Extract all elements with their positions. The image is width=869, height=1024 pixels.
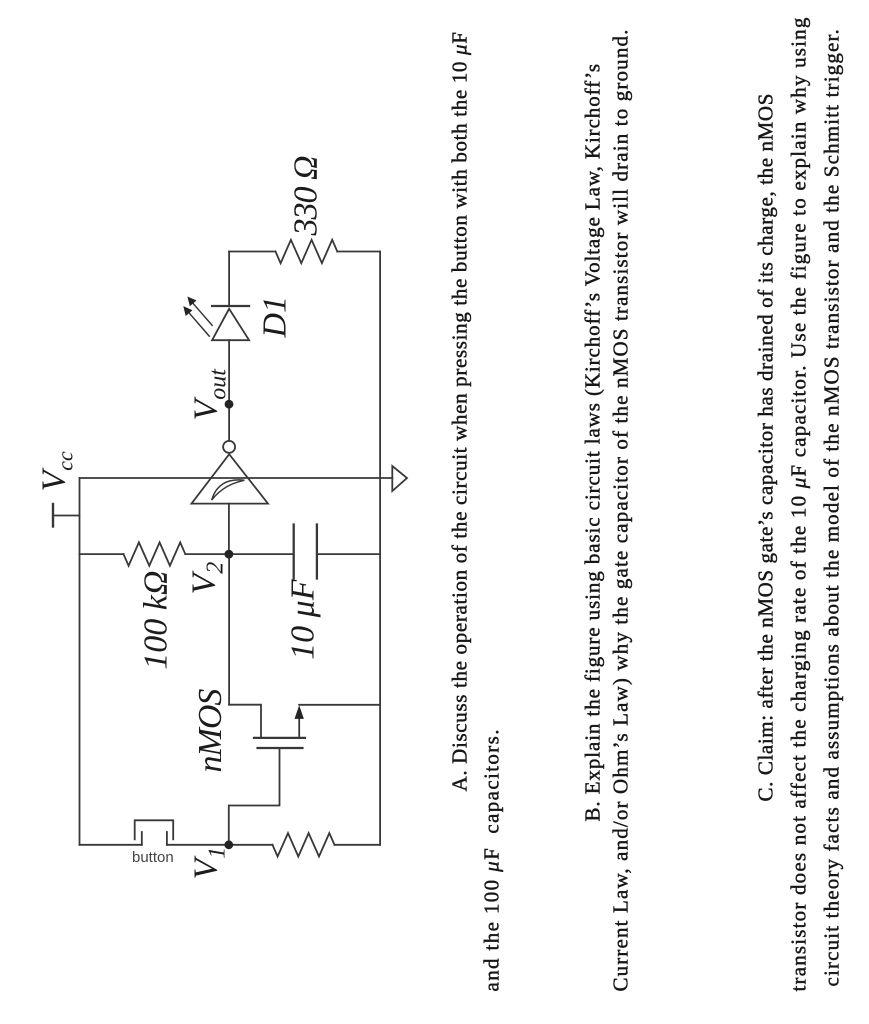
paragraph C line 1: [755, 93, 776, 802]
wire gate path: [228, 748, 279, 845]
paragraph C line 3: [821, 28, 842, 986]
svg-text:Vout: Vout: [187, 367, 231, 420]
led D1 cathode bar: [212, 304, 249, 306]
svg-text:button: button: [132, 849, 174, 866]
wire left rail upper: [79, 843, 141, 845]
svg-text:330 Ω: 330 Ω: [287, 156, 324, 237]
power Vcc stem: [53, 514, 80, 516]
schmitt output bubble: [223, 440, 235, 452]
wire V2 riser top: [79, 553, 123, 555]
paragraph B line 2: [610, 28, 631, 991]
led D1 arrow 1: [185, 308, 209, 336]
wire 330 lower: [337, 250, 380, 252]
wire V2 riser bottom: [316, 553, 379, 555]
paragraph A line 1: [449, 31, 470, 791]
node Vout: [224, 399, 233, 408]
paragraph C line 2: [788, 16, 809, 991]
wire schmitt input: [227, 503, 229, 554]
ground symbol arrow: [392, 466, 407, 491]
svg-text:V2: V2: [185, 561, 228, 594]
resistor R3 zigzag 330: [275, 239, 337, 262]
pushbutton contact stubs: [141, 832, 166, 845]
led D1 arrow 2: [188, 298, 211, 325]
svg-text:Vcc: Vcc: [35, 450, 77, 491]
wire source to rail: [299, 703, 380, 705]
wire V2 riser mid: [185, 553, 293, 555]
transistor Q1 drain wire: [229, 704, 261, 737]
transistor Q1 channel bar: [254, 736, 305, 738]
wire left rail lower: [334, 843, 380, 845]
led D1 body: [212, 308, 249, 339]
schmitt hysteresis mark: [211, 479, 244, 499]
transistor Q1 source wire: [298, 717, 300, 737]
resistor R1 zigzag 100k: [123, 542, 185, 565]
wire left rail mid: [166, 843, 272, 845]
svg-text:10 μF: 10 μF: [284, 578, 321, 660]
capacitor C1 bottom plate: [315, 524, 317, 578]
wire bottom rail: [379, 251, 381, 844]
wire ground drop: [79, 477, 392, 479]
pushbutton actuator bracket: [134, 820, 173, 839]
transistor Q1 gate bar: [257, 746, 302, 748]
schmitt trigger U1 triangle: [191, 454, 268, 503]
resistor R2 zigzag: [272, 833, 334, 856]
wire 330 upper: [229, 250, 275, 252]
wire top rail: [78, 478, 80, 845]
transistor Q1 source arrowhead: [294, 705, 303, 719]
node V1: [224, 840, 233, 849]
node V2: [224, 549, 233, 558]
power Vcc bar: [51, 504, 53, 527]
svg-text:100 kΩ: 100 kΩ: [137, 570, 174, 669]
wire drain to V2: [228, 554, 230, 705]
paragraph B line 1: [582, 63, 603, 821]
svg-text:nMOS: nMOS: [192, 688, 229, 772]
wire led to resistor: [228, 251, 230, 306]
capacitor C1 top plate: [292, 524, 294, 578]
led D1 arrowhead 1: [183, 306, 192, 316]
wire schmitt output: [228, 340, 230, 441]
led D1 arrowhead 2: [187, 296, 196, 306]
svg-text:D1: D1: [256, 295, 293, 338]
svg-text:V1: V1: [187, 846, 230, 879]
paragraph A line 2: [481, 728, 502, 991]
